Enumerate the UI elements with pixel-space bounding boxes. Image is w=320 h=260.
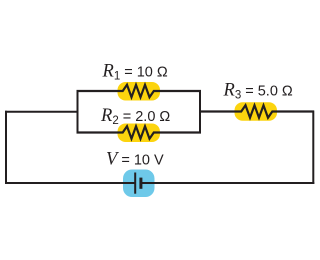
resistor R2	[77, 126, 202, 138]
resistor R3	[199, 105, 314, 117]
wire box left edge	[77, 90, 79, 134]
highlight battery	[123, 170, 155, 198]
wire bottom left segment	[5, 182, 135, 184]
wire box right edge	[199, 90, 201, 134]
wire right vertical	[312, 111, 314, 185]
highlight R1	[118, 82, 161, 101]
svg-text:R1 = 10 Ω: R1 = 10 Ω	[102, 62, 168, 83]
battery V short plate	[139, 178, 142, 189]
highlight R3	[235, 102, 278, 121]
resistor R1	[77, 85, 202, 97]
highlight R2	[118, 124, 161, 143]
battery V long plate	[134, 173, 136, 194]
svg-text:R2 = 2.0 Ω: R2 = 2.0 Ω	[100, 106, 170, 127]
wire bottom right segment	[141, 182, 315, 184]
svg-text:V = 10 V: V = 10 V	[106, 150, 164, 170]
wire left vertical	[5, 111, 7, 184]
svg-text:R3 = 5.0 Ω: R3 = 5.0 Ω	[223, 81, 293, 102]
wire top left horizontal	[5, 111, 79, 113]
